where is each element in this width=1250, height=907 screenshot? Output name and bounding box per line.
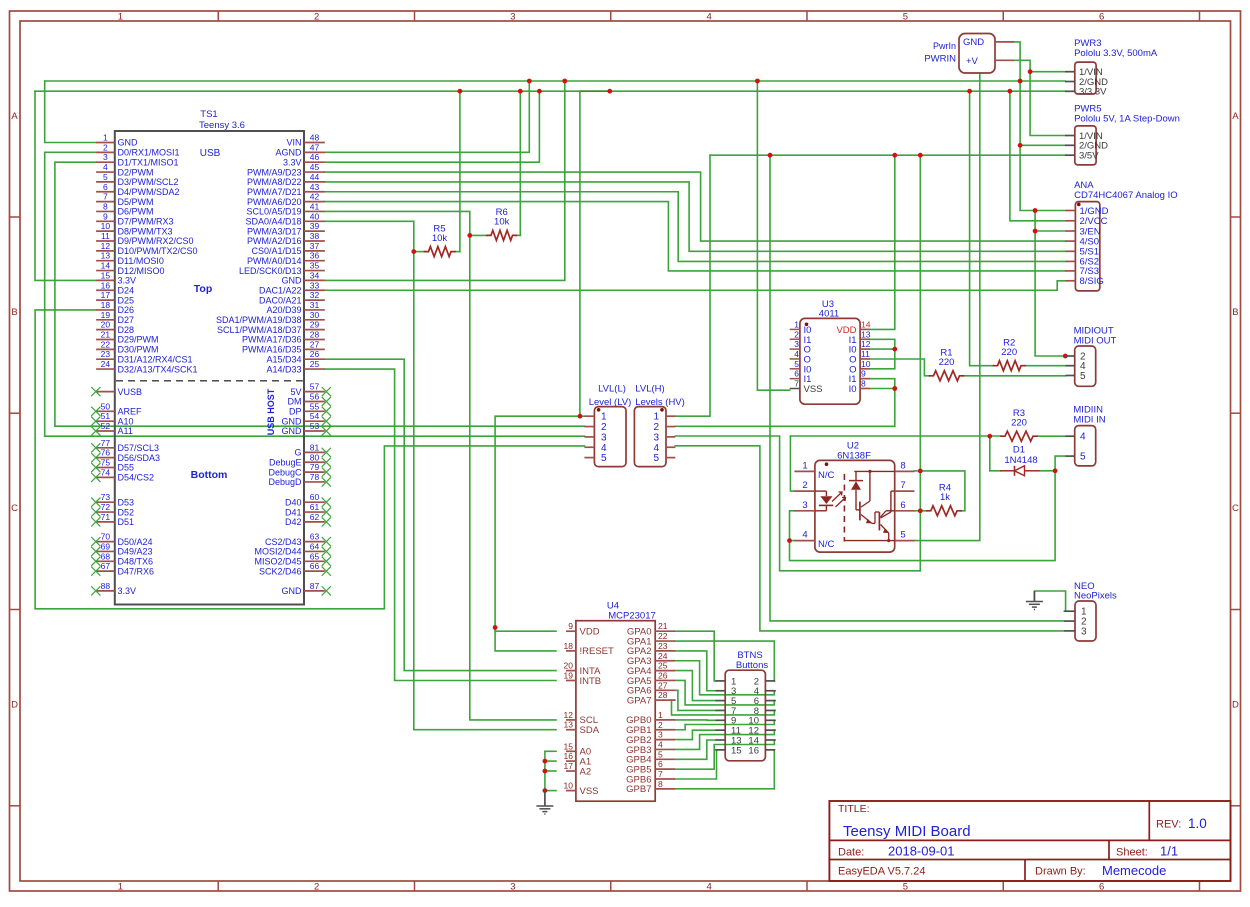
node junction U2 pin4 tie (787, 538, 792, 543)
LVL(H) pin 3 (653, 432, 675, 443)
TS1 pin 66 SCK2/D46 (259, 561, 331, 576)
svg-text:34: 34 (310, 270, 320, 280)
svg-text:LED/SCK0/D13: LED/SCK0/D13 (239, 266, 302, 276)
svg-text:66: 66 (310, 561, 320, 571)
U2 pin 1 (794, 460, 834, 481)
svg-text:GPB7: GPB7 (626, 784, 651, 795)
wire U4 GPB1 to BTNS 10 (675, 720, 775, 729)
svg-text:CD74HC4067 Analog IO: CD74HC4067 Analog IO (1074, 190, 1178, 201)
TS1 pin 41 SCL0/A5/D19 (246, 201, 324, 216)
wire U4 GPA6 to BTNS 7 (675, 690, 716, 710)
NEO pin 1 (1064, 607, 1087, 618)
wire MIDI in signal to U2 pin2 (790, 436, 794, 491)
svg-text:3: 3 (510, 12, 515, 23)
BTNS pin 5 (716, 696, 737, 707)
svg-text:D9/PWM/RX2/CS0: D9/PWM/RX2/CS0 (118, 236, 194, 246)
svg-text:61: 61 (310, 502, 320, 512)
svg-text:78: 78 (310, 472, 320, 482)
svg-text:10: 10 (101, 221, 111, 231)
wire TS1 pin15 3.3V to rail (35, 91, 96, 280)
wire 5V to U2 pin8 net (919, 155, 921, 571)
svg-text:3.3V: 3.3V (118, 276, 137, 286)
svg-text:D1/TX1/MISO1: D1/TX1/MISO1 (118, 157, 179, 167)
svg-text:D57/SCL3: D57/SCL3 (118, 443, 160, 453)
svg-text:INTB: INTB (580, 676, 602, 687)
TS1 pin 70 D50/A24 (91, 532, 152, 547)
svg-text:EasyEDA V5.7.24: EasyEDA V5.7.24 (838, 866, 925, 878)
svg-text:12: 12 (861, 339, 871, 349)
connector PwrIn PWRIN (924, 34, 1014, 74)
svg-text:47: 47 (310, 142, 320, 152)
TS1 pin 72 D52 (91, 502, 134, 517)
node junction GND rail / U3 VSS (755, 79, 760, 84)
BTNS pin 9 (716, 716, 737, 727)
svg-text:16: 16 (564, 751, 574, 761)
TS1 pin 19 D27 (96, 310, 134, 325)
svg-text:D3/PWM/SCL2: D3/PWM/SCL2 (118, 177, 179, 187)
svg-text:18: 18 (564, 641, 574, 651)
ANA pin 2/VCC (1066, 216, 1108, 227)
TS1 pin 10 D8/PWM/TX3 (96, 221, 172, 236)
svg-text:A20/D39: A20/D39 (266, 305, 301, 315)
U3 pin 12 I0 (849, 339, 871, 356)
svg-text:20: 20 (564, 661, 574, 671)
svg-text:D49/A23: D49/A23 (118, 547, 153, 557)
U4 pin 24 GPA3 (627, 651, 675, 667)
ground symbol at U4 VSS (536, 791, 553, 814)
svg-text:D41: D41 (285, 507, 302, 517)
svg-text:18: 18 (101, 300, 111, 310)
TS1 pin 24 D32/A13/TX4/SCK1 (96, 359, 197, 374)
wire PWR3 VIN branch (1030, 71, 1065, 73)
TS1 pin 33 DAC1/A22 (259, 280, 325, 295)
wire U3 pin12 stub join (870, 348, 895, 350)
BTNS pin 13 (716, 735, 742, 746)
svg-text:GND: GND (118, 138, 139, 148)
MIDIOUT pin 4 (1066, 361, 1087, 372)
TS1 pin 44 PWM/A8/D22 (247, 172, 325, 187)
wire U4 A0 A1 A2 VSS chain (544, 751, 546, 790)
svg-text:6: 6 (103, 182, 108, 192)
TS1 pin 34 GND (282, 270, 325, 285)
svg-text:8/SIG: 8/SIG (1080, 276, 1104, 287)
TS1 pin 5V 57 (290, 382, 330, 397)
wire U4 A1 stub (545, 760, 556, 762)
TS1 pin 61 D41 (285, 502, 331, 517)
TS1 pin 35 LED/SCK0/D13 (239, 261, 325, 276)
svg-text:Pololu 3.3V, 500mA: Pololu 3.3V, 500mA (1074, 48, 1158, 59)
svg-text:10k: 10k (432, 233, 448, 244)
svg-text:21: 21 (658, 621, 668, 631)
svg-text:16: 16 (101, 280, 111, 290)
svg-text:35: 35 (310, 261, 320, 271)
U3 pin 10 O (849, 359, 871, 376)
wire U4 GPB3 to BTNS 12 (675, 730, 775, 749)
svg-text:VUSB: VUSB (118, 387, 143, 397)
node junction 5V line / NeoPixel VCC (768, 153, 773, 158)
TS1 pin DP 55 (289, 401, 331, 416)
node junction 3V3 rail / R5 (458, 89, 463, 94)
svg-text:3/3.3V: 3/3.3V (1079, 87, 1107, 98)
svg-text:9: 9 (568, 621, 573, 631)
svg-text:30: 30 (310, 310, 320, 320)
svg-text:220: 220 (1011, 417, 1027, 428)
svg-text:VSS: VSS (804, 384, 823, 395)
TS1 pin 88 3.3V (91, 581, 136, 596)
wire U4 GPA2 to BTNS 3 (675, 651, 716, 691)
wire TS1 pin46 3.3V to rail (325, 91, 540, 162)
svg-text:9: 9 (103, 211, 108, 221)
wire U2 pin8 stub join (914, 470, 920, 472)
U4 pin 20 INTA (564, 661, 602, 677)
wire U4 A0 stub (545, 750, 556, 752)
U3 pin 6 I1 (790, 369, 812, 386)
TS1 pin 15 3.3V (96, 270, 136, 285)
wire U4 GPA4 to BTNS 5 (675, 671, 716, 701)
svg-text:AREF: AREF (118, 407, 143, 417)
U4 pin 3 GPB2 (626, 730, 675, 746)
wire 3.3V rail (35, 90, 1065, 92)
BTNS pin 8 (754, 706, 775, 717)
row letters (11, 111, 1239, 711)
svg-text:DP: DP (289, 407, 302, 417)
wire U3 out11 to R1 (870, 359, 930, 376)
svg-text:21: 21 (101, 330, 111, 340)
U4 pin 8 GPB7 (626, 779, 675, 795)
svg-text:SCL0/A5/D19: SCL0/A5/D19 (246, 207, 301, 217)
wire U2 pin6 stub join (914, 510, 920, 512)
svg-text:A2: A2 (580, 766, 592, 777)
wire U2 pin4 to MIDIIN 5 net (790, 471, 1056, 561)
PWR3 pin 2/GND (1065, 77, 1108, 88)
svg-text:USB: USB (200, 148, 221, 159)
BTNS pin 2 (754, 676, 775, 687)
svg-text:77: 77 (101, 438, 111, 448)
svg-text:67: 67 (101, 561, 111, 571)
wire TS1 pin42 D20 to ANA S3 (325, 202, 1066, 271)
TS1 pin 18 D26 (96, 300, 134, 315)
TS1 pin 87 GND (282, 581, 331, 596)
TS1 pin 6 D4/PWM/SDA2 (96, 182, 179, 197)
TS1 pin 63 CS2/D43 (265, 532, 331, 547)
svg-text:29: 29 (310, 320, 320, 330)
TS1 pin AREF (91, 401, 142, 416)
TS1 pin 30 SDA1/PWM/A19/D38 (216, 310, 325, 325)
svg-text:PWM/A8/D22: PWM/A8/D22 (247, 177, 302, 187)
wire TS1 pin34 GND to rail (325, 81, 565, 280)
svg-text:72: 72 (101, 502, 111, 512)
svg-text:GND: GND (963, 37, 984, 48)
svg-text:MIDI IN: MIDI IN (1073, 414, 1105, 425)
wire 5V to NeoPixel VCC (770, 155, 1064, 621)
node junction 3V3 rail / LVL(L).1 branch (607, 89, 612, 94)
title block (829, 801, 1230, 881)
TS1 dashed divider (116, 380, 303, 382)
svg-text:CS2/D43: CS2/D43 (265, 537, 302, 547)
svg-text:28: 28 (310, 330, 320, 340)
TS1 pin 12 D10/PWM/TX2/CS0 (96, 241, 197, 256)
node junction GND / PWR5 GND (1018, 143, 1023, 148)
svg-text:SCK2/D46: SCK2/D46 (259, 566, 302, 576)
svg-text:70: 70 (101, 532, 111, 542)
svg-text:5: 5 (653, 453, 659, 464)
svg-text:71: 71 (101, 512, 111, 522)
TS1 pin 43 PWM/A7/D21 (247, 182, 325, 197)
TS1 pin 21 D29/PWM (96, 330, 158, 345)
svg-text:8: 8 (103, 201, 108, 211)
svg-text:31: 31 (310, 300, 320, 310)
svg-text:GPA7: GPA7 (627, 695, 652, 706)
wire U4 GPA5 to BTNS 6 (675, 680, 775, 704)
wire TS1 pin26 D34 to U4 INTA (325, 359, 556, 670)
svg-text:D51: D51 (118, 517, 135, 527)
svg-text:B: B (1232, 307, 1238, 318)
svg-text:GND: GND (282, 586, 303, 596)
svg-text:10: 10 (861, 359, 871, 369)
TS1 pin GND 53 (282, 421, 331, 436)
svg-text:5: 5 (658, 749, 663, 759)
wire 5V line from PWR5 (710, 154, 1065, 156)
MIDIOUT pin 5 (1066, 371, 1087, 382)
wire TS1 pin47 AGND to GND rail (325, 81, 530, 152)
svg-text:5: 5 (903, 12, 908, 23)
IC U3 4011 (800, 299, 860, 404)
node junction U2 pin6 / R4 (918, 508, 923, 513)
svg-text:VSS: VSS (580, 786, 599, 797)
node junction SCL / R6 (467, 233, 472, 238)
svg-text:88: 88 (101, 581, 111, 591)
U4 pin 27 GPA6 (627, 680, 675, 696)
LVL(L) pin 4 (584, 443, 607, 454)
node junction GND rail / TS1.34 (562, 79, 567, 84)
TS1 pin 77 D57/SCL3 (91, 438, 159, 453)
node junction U2 pin8 / R4 (918, 469, 923, 474)
svg-text:!RESET: !RESET (580, 646, 615, 657)
wire TS1 pin1 GND to rail (45, 81, 96, 143)
svg-text:1: 1 (653, 412, 659, 423)
optocoupler U2 6N138F (815, 441, 895, 552)
svg-text:32: 32 (310, 290, 320, 300)
svg-text:39: 39 (310, 221, 320, 231)
svg-text:10: 10 (564, 781, 574, 791)
TS1 pin A11 (91, 421, 133, 436)
svg-text:6: 6 (794, 369, 799, 379)
svg-text:11: 11 (861, 349, 870, 359)
TS1 pin 9 D7/PWM/RX3 (96, 211, 173, 226)
U4 pin 4 GPB3 (626, 739, 675, 755)
svg-text:7: 7 (658, 769, 663, 779)
svg-text:8: 8 (900, 460, 905, 471)
wire 3.3V rail overlap segment (580, 90, 610, 92)
wire U3 VSS to GND rail (757, 81, 789, 390)
svg-text:27: 27 (310, 339, 320, 349)
U4 pin 22 GPA1 (627, 631, 675, 647)
svg-text:USB HOST: USB HOST (266, 388, 276, 435)
wire 5V to LVL(H).1 (675, 155, 710, 416)
wire R2 to MIDIOUT 4 (1025, 365, 1066, 367)
TS1 pin 14 D12/MISO0 (96, 261, 164, 276)
svg-text:5: 5 (601, 453, 607, 464)
svg-text:D55: D55 (118, 463, 135, 473)
TS1 pin 22 D30/PWM (96, 339, 158, 354)
U4 pin 1 GPB0 (626, 710, 675, 726)
wire U4 GPB5 to BTNS 14 (675, 740, 775, 769)
TS1 pin 79 DebugC (268, 462, 330, 477)
wire U3 pin8 stub join (870, 388, 895, 390)
svg-text:24: 24 (101, 359, 111, 369)
svg-text:SDA: SDA (580, 725, 600, 736)
TS1 pin 20 D28 (96, 320, 134, 335)
TS1 pin 37 CS0/A1/D15 (251, 241, 324, 256)
svg-text:4: 4 (706, 882, 711, 893)
wire 3.3V to R2 (970, 91, 994, 366)
TS1 pin 39 PWM/A3/D17 (247, 221, 325, 236)
svg-text:2: 2 (658, 720, 663, 730)
svg-text:14: 14 (101, 261, 111, 271)
TS1 pin 67 D47/RX6 (91, 561, 154, 576)
LVL(L) pin 2 (584, 422, 607, 433)
wire +V to U2 pin5 (914, 73, 979, 541)
node junction 3V3 rail / ANA VCC (1008, 89, 1013, 94)
wire R6 pullup to 3.3V rail (519, 91, 521, 235)
svg-text:PWM/A0/D14: PWM/A0/D14 (247, 256, 302, 266)
svg-text:DebugE: DebugE (269, 457, 302, 467)
svg-text:D47/RX6: D47/RX6 (118, 566, 155, 576)
wire U3 out10 to in13 in12 (870, 339, 895, 369)
PwrIn pin GND stub (995, 41, 1014, 43)
svg-text:REV:: REV: (1156, 819, 1181, 831)
node junction 3V3 / U4 VDD (493, 625, 498, 630)
svg-text:6: 6 (658, 759, 663, 769)
node junction U4 VSS (543, 788, 548, 793)
svg-text:37: 37 (310, 241, 320, 251)
TS1 pin 11 D9/PWM/RX2/CS0 (96, 231, 193, 246)
wire U4 VSS stub (545, 790, 556, 792)
svg-text:16: 16 (748, 745, 759, 756)
wire GND to ANA EN (1035, 230, 1065, 232)
svg-text:3: 3 (1081, 626, 1087, 637)
svg-text:Pololu 5V, 1A Step-Down: Pololu 5V, 1A Step-Down (1074, 114, 1180, 125)
svg-text:6: 6 (900, 500, 905, 511)
U4 pin 7 GPB6 (626, 769, 675, 785)
svg-text:A10: A10 (118, 416, 134, 426)
TS1 pin 65 MISO2/D45 (254, 551, 330, 566)
svg-text:75: 75 (101, 458, 111, 468)
svg-text:3: 3 (653, 432, 659, 443)
svg-text:MIDI OUT: MIDI OUT (1074, 336, 1117, 347)
U3 pin 9 I1 (849, 369, 870, 386)
TS1 pin 75 D55 (91, 458, 134, 473)
node junction GND rail / TS1.47 (527, 79, 532, 84)
svg-text:1: 1 (794, 319, 799, 329)
connector LVL(H) Levels (HV) (634, 384, 684, 467)
node junction GND / ANA EN (1033, 229, 1038, 234)
svg-text:50: 50 (101, 401, 111, 411)
svg-text:17: 17 (101, 290, 111, 300)
wire PWR5 GND branch (1020, 144, 1065, 146)
TS1 pin 38 PWM/A2/D16 (247, 231, 325, 246)
U4 pin 16 A1 (564, 751, 592, 767)
svg-text:D6/PWM: D6/PWM (118, 207, 154, 217)
U3 pin 2 I1 (790, 329, 812, 346)
svg-text:D: D (11, 700, 18, 711)
U3 pin 4 O (790, 349, 811, 366)
svg-text:D40: D40 (285, 497, 302, 507)
svg-text:PWM/A17/D36: PWM/A17/D36 (242, 335, 302, 345)
TS1 pin 45 PWM/A9/D23 (247, 162, 325, 177)
svg-text:45: 45 (310, 162, 320, 172)
svg-text:D30/PWM: D30/PWM (118, 345, 159, 355)
svg-text:10k: 10k (494, 217, 510, 228)
ANA pin 3/EN (1066, 226, 1101, 237)
svg-text:4: 4 (601, 443, 607, 454)
TS1 pin 68 D48/TX6 (91, 551, 153, 566)
node junction GND rail / PwrIn GND (1018, 79, 1023, 84)
svg-text:52: 52 (101, 421, 111, 431)
svg-text:73: 73 (101, 492, 111, 502)
node junction U3 pin8 net (892, 386, 897, 391)
node junction U3 pin12 net (892, 347, 897, 352)
wire R5 pullup to 3.3V rail (459, 91, 461, 251)
svg-text:11: 11 (101, 231, 110, 241)
svg-text:A: A (11, 111, 18, 122)
svg-text:I0: I0 (849, 384, 857, 395)
svg-text:13: 13 (101, 251, 111, 261)
svg-text:MISO2/D45: MISO2/D45 (254, 557, 301, 567)
resistor R6 10k (487, 207, 517, 240)
svg-text:D32/A13/TX4/SCK1: D32/A13/TX4/SCK1 (118, 364, 198, 374)
svg-text:1: 1 (601, 412, 607, 423)
IC U4 MCP23017 (576, 600, 656, 801)
svg-text:2: 2 (103, 142, 108, 152)
svg-text:4: 4 (653, 443, 659, 454)
connector MIDIOUT MIDI OUT (1066, 326, 1117, 387)
LVL(L) pin 5 (584, 453, 607, 464)
wire U4 GPA1 to BTNS 2 (675, 641, 774, 681)
TS1 pin GND 54 (282, 411, 331, 426)
TS1 pin A10 (91, 411, 133, 426)
wire TS1 pin43 D21 to ANA S2 (325, 192, 1066, 262)
svg-text:15: 15 (101, 270, 111, 280)
svg-text:23: 23 (101, 349, 111, 359)
connector NEO NeoPixels (1026, 581, 1117, 641)
U4 pin 18 !RESET (564, 641, 614, 657)
U2 pin 4 (794, 530, 834, 551)
TS1 pin 71 D51 (91, 512, 134, 527)
svg-text:MOSI2/D44: MOSI2/D44 (254, 547, 301, 557)
MIDIIN pin 4 (1066, 432, 1087, 443)
connector PWR3 Pololu 3.3V (1065, 38, 1158, 97)
node junction +V / PWR3 VIN (1028, 69, 1033, 74)
svg-text:1.0: 1.0 (1188, 816, 1207, 831)
wire LVL(L).1 to 3.3V rail (579, 91, 581, 416)
svg-text:41: 41 (310, 201, 320, 211)
svg-text:D50/A24: D50/A24 (118, 537, 153, 547)
connector MIDIIN MIDI IN (1066, 405, 1106, 466)
TS1 pin 4 D2/PWM (96, 162, 153, 177)
svg-text:C: C (11, 503, 18, 514)
svg-text:GND: GND (282, 276, 303, 286)
node junction 5V line / U2 VCC (918, 153, 923, 158)
svg-text:SDA0/A4/D18: SDA0/A4/D18 (245, 217, 301, 227)
svg-text:53: 53 (310, 421, 320, 431)
node junction 3V3 rail / R2 (967, 89, 972, 94)
U4 pin 25 GPA4 (627, 661, 675, 677)
NEO pin 2 (1064, 617, 1087, 628)
svg-text:2: 2 (802, 480, 807, 491)
svg-text:D54/CS2: D54/CS2 (118, 473, 155, 483)
wire PwrIn GND down (1013, 42, 1066, 211)
